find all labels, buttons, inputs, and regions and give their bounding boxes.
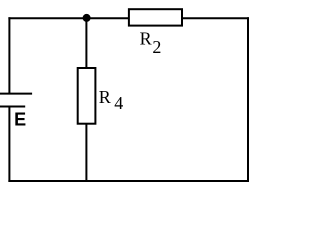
- wire right rail: [247, 17, 249, 182]
- wire bottom rail: [8, 180, 249, 182]
- battery E plate short: [0, 106, 25, 108]
- node junction dot: [83, 14, 91, 22]
- wire left upper (to battery): [8, 17, 10, 93]
- svg-text:R: R: [99, 87, 111, 107]
- resistor R4: [78, 68, 96, 124]
- svg-text:2: 2: [152, 37, 161, 57]
- wire middle branch: [85, 17, 87, 181]
- svg-text:R: R: [140, 29, 152, 49]
- svg-text:E: E: [14, 110, 26, 130]
- wire left lower (battery to bottom): [8, 107, 10, 183]
- wire top rail: [8, 17, 249, 19]
- svg-text:4: 4: [114, 93, 123, 113]
- resistor R2: [129, 9, 182, 25]
- battery E plate long: [0, 93, 32, 95]
